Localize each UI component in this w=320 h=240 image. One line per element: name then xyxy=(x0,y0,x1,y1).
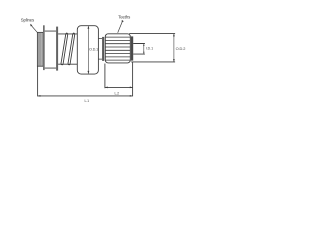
spacer ring between barrel and gear xyxy=(102,37,104,61)
svg-text:Teeths: Teeths xyxy=(118,14,130,19)
leader arrow to splines xyxy=(30,24,37,33)
dimension O.D.2 xyxy=(129,34,185,62)
svg-text:I.D.1: I.D.1 xyxy=(146,47,153,51)
gear face plate xyxy=(131,36,133,60)
svg-text:O.D.1: O.D.1 xyxy=(89,47,98,51)
pinion gear xyxy=(105,34,130,63)
svg-text:O.D.2: O.D.2 xyxy=(176,46,186,51)
clutch barrel xyxy=(77,26,98,74)
dimension L.2 xyxy=(105,64,133,96)
helix shaft outline xyxy=(58,34,77,64)
sleeve between washers xyxy=(45,31,56,68)
washer W1 xyxy=(43,25,45,70)
leader arrow to teeth xyxy=(118,20,124,33)
dimension O.D.1 xyxy=(88,26,99,74)
coil 2 xyxy=(68,33,75,65)
dimension L.1 xyxy=(38,62,133,103)
coil 1 xyxy=(61,33,68,65)
svg-text:L.1: L.1 xyxy=(85,99,90,103)
washer W2 xyxy=(56,27,58,71)
splined shaft section xyxy=(37,32,43,66)
dimension I.D.1 xyxy=(133,44,153,55)
hub lines between barrel and ring xyxy=(98,39,102,60)
svg-text:L.2: L.2 xyxy=(115,91,120,95)
svg-text:Splines: Splines xyxy=(21,18,34,23)
